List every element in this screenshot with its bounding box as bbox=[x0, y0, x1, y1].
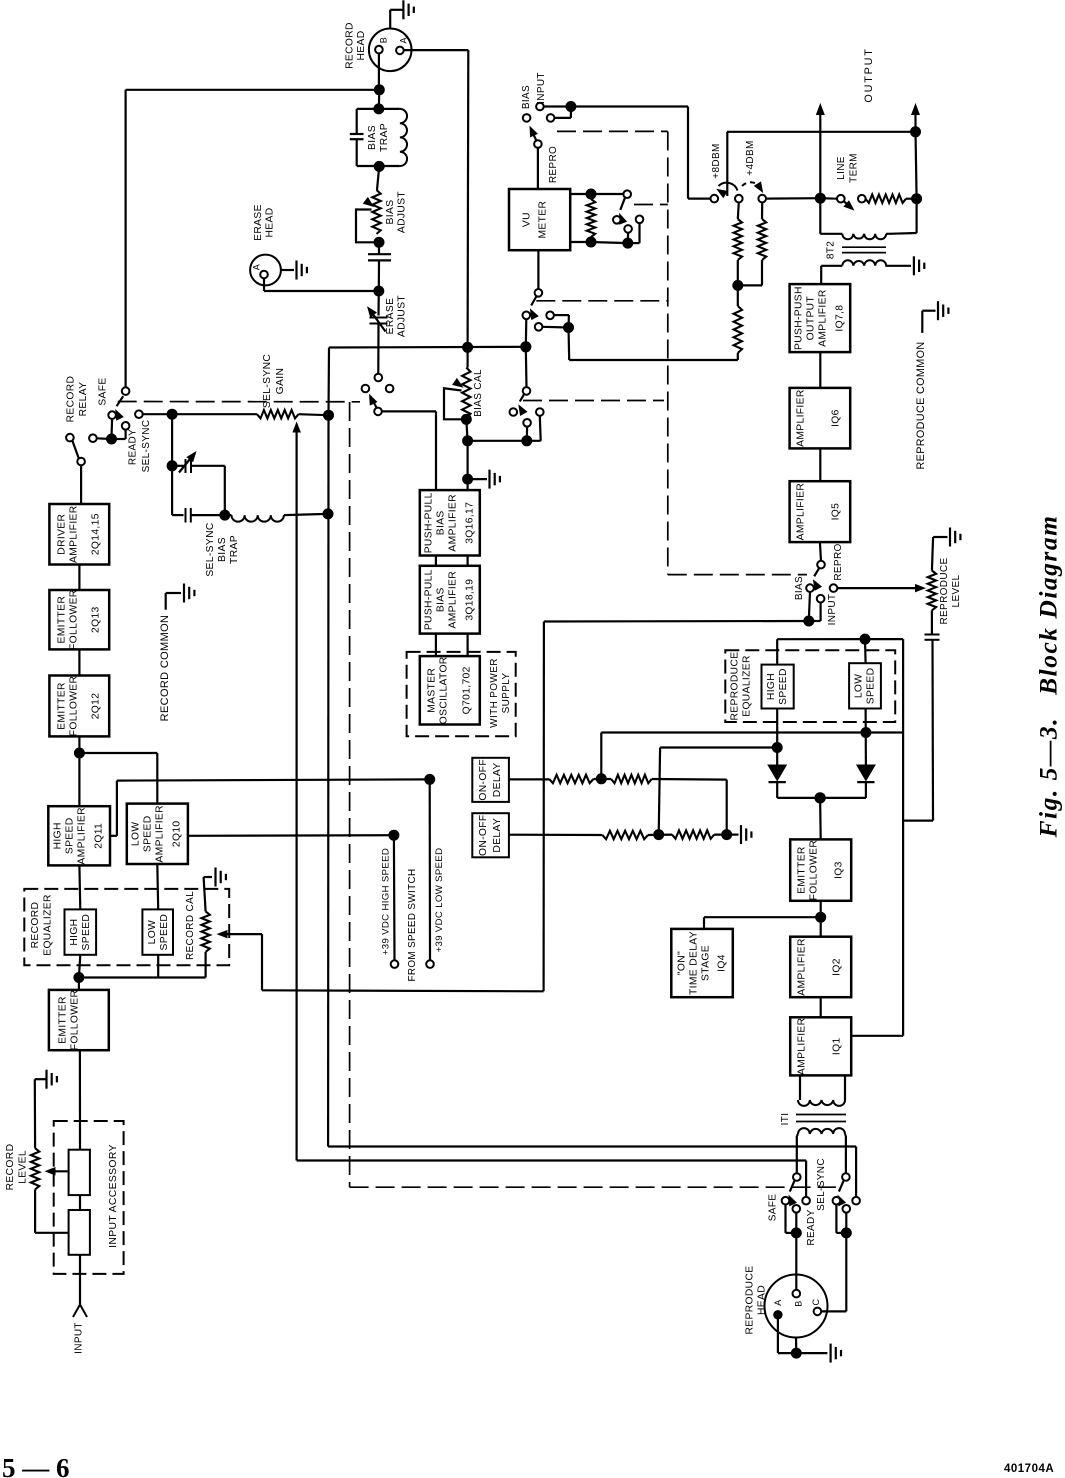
svg-text:OSCILLATOR: OSCILLATOR bbox=[439, 656, 450, 724]
node J6 bbox=[324, 410, 334, 420]
transformer IT1 bbox=[780, 1075, 846, 1173]
svg-text:A: A bbox=[399, 37, 409, 43]
svg-text:REPRO: REPRO bbox=[833, 543, 844, 580]
ground (record level) bbox=[35, 1070, 57, 1149]
dashed gang line (record relay) bbox=[118, 401, 360, 403]
node J16 bbox=[912, 194, 922, 204]
wire +4dbm contact to line bbox=[766, 197, 821, 200]
svg-text:FOLLOWER: FOLLOWER bbox=[69, 676, 80, 737]
switch (meter source) bbox=[523, 250, 574, 347]
svg-text:LEVEL: LEVEL bbox=[951, 574, 962, 607]
svg-text:"ON": "ON" bbox=[677, 951, 688, 975]
bias trap LC bbox=[350, 109, 407, 166]
node J14 bbox=[733, 280, 743, 290]
svg-text:RECORD COMMON: RECORD COMMON bbox=[159, 615, 171, 722]
svg-text:HIGH: HIGH bbox=[766, 673, 777, 700]
block AMPLIFIER IQ1 bbox=[790, 1017, 851, 1075]
wire head A to ground bbox=[778, 1315, 828, 1353]
svg-text:SPEED: SPEED bbox=[143, 815, 154, 852]
svg-text:INPUT: INPUT bbox=[74, 1322, 85, 1354]
svg-text:HEAD: HEAD bbox=[356, 30, 367, 60]
svg-text:A: A bbox=[252, 264, 262, 270]
svg-text:STAGE: STAGE bbox=[701, 945, 712, 981]
svg-text:DELAY: DELAY bbox=[492, 762, 503, 797]
wire EF to accessory bbox=[79, 1050, 81, 1150]
node (hs junction) bbox=[772, 743, 782, 753]
wire J16 up bbox=[916, 132, 917, 199]
svg-text:IQ5: IQ5 bbox=[831, 503, 842, 521]
svg-text:AMPLIFIER: AMPLIFIER bbox=[155, 805, 166, 863]
svg-text:EMITTER: EMITTER bbox=[57, 596, 68, 644]
svg-text:5 — 6: 5 — 6 bbox=[2, 1453, 70, 1478]
switch (reproduce input BIAS/REPRO/INPUT) bbox=[794, 543, 844, 625]
ground (erase head) bbox=[281, 261, 307, 280]
wire repro to level pot bbox=[837, 584, 926, 593]
svg-text:TRAP: TRAP bbox=[229, 535, 240, 564]
wire hs to chain2 bbox=[659, 748, 778, 835]
svg-text:401704A: 401704A bbox=[1004, 1463, 1054, 1475]
block DRIVER AMPLIFIER 2Q14,15 bbox=[49, 504, 109, 565]
wire to bias adjust bbox=[377, 166, 379, 190]
svg-text:BIAS: BIAS bbox=[521, 85, 532, 109]
resistor (mix 1b) bbox=[611, 775, 652, 783]
wire 2Q12 down bbox=[78, 736, 80, 806]
svg-text:SPEED: SPEED bbox=[65, 817, 76, 854]
wire to IQ3 bbox=[819, 798, 822, 840]
node J11 bbox=[522, 436, 532, 446]
block EMITTER FOLLOWER (input) bbox=[49, 990, 109, 1051]
wire sel-sync gain out bbox=[299, 414, 329, 415]
ground REPRODUCE COMMON bbox=[915, 301, 948, 469]
wire split to 2Q10 bbox=[79, 753, 157, 804]
svg-text:HIGH: HIGH bbox=[69, 919, 80, 946]
wire 2Q10 out bbox=[188, 834, 394, 837]
svg-text:IQ2: IQ2 bbox=[832, 958, 843, 976]
block ON-OFF DELAY (low speed) bbox=[472, 758, 509, 802]
svg-text:SAFE: SAFE bbox=[98, 377, 109, 405]
wire selsync to head C bbox=[821, 1233, 846, 1312]
svg-text:B: B bbox=[379, 37, 389, 43]
block PUSH-PULL BIAS AMPLIFIER 3Q18,19 bbox=[420, 566, 480, 634]
block EMITTER FOLLOWER 2Q13 bbox=[49, 589, 109, 650]
svg-text:LINE: LINE bbox=[836, 156, 847, 180]
node J12 bbox=[463, 474, 473, 484]
svg-text:HEAD: HEAD bbox=[757, 1285, 768, 1315]
svg-text:HEAD: HEAD bbox=[265, 207, 276, 237]
terminal INPUT bbox=[73, 1305, 87, 1354]
capacitor (sel-sync trap) bbox=[172, 466, 225, 523]
svg-text:EMITTER: EMITTER bbox=[57, 682, 68, 730]
svg-text:SPEED: SPEED bbox=[159, 914, 170, 951]
svg-text:SEL-SYNC: SEL-SYNC bbox=[205, 522, 216, 577]
dashed gang vertical (relay to repro switches) bbox=[349, 402, 351, 1187]
node (trap mid) bbox=[220, 510, 230, 520]
svg-text:DRIVER: DRIVER bbox=[57, 514, 68, 555]
svg-text:2Q14,15: 2Q14,15 bbox=[91, 513, 102, 555]
connector J erase head bbox=[250, 204, 281, 285]
svg-text:ON-OFF: ON-OFF bbox=[478, 814, 489, 856]
wire VU right top bbox=[570, 193, 591, 195]
wire 2Q11 to equalizer bbox=[78, 865, 81, 909]
dashed box (power supply) bbox=[407, 652, 516, 736]
ground (bias) bbox=[470, 470, 500, 489]
connector J reproduce head bbox=[745, 1266, 828, 1338]
wire chain2 bbox=[509, 834, 602, 836]
switch (record/sel-sync bias) bbox=[362, 374, 394, 416]
svg-text:IQ6: IQ6 bbox=[831, 409, 842, 427]
node (low speed top) bbox=[860, 634, 870, 644]
svg-text:EQUALIZER: EQUALIZER bbox=[742, 655, 753, 717]
node J9 bbox=[461, 414, 471, 424]
svg-text:RECORD: RECORD bbox=[5, 1144, 16, 1191]
arrow OUTPUT 1 bbox=[816, 103, 825, 198]
svg-text:SAFE: SAFE bbox=[768, 1194, 779, 1222]
svg-text:BIAS CAL: BIAS CAL bbox=[473, 369, 484, 417]
wire ready feed bbox=[297, 1161, 806, 1198]
potentiometer RECORD LEVEL bbox=[5, 1144, 69, 1233]
svg-text:BIAS: BIAS bbox=[794, 576, 805, 600]
svg-text:EQUALIZER: EQUALIZER bbox=[43, 894, 54, 956]
switch (output level +8/+4 DBM) bbox=[711, 132, 767, 203]
svg-text:READY: READY bbox=[806, 1209, 817, 1245]
svg-text:B: B bbox=[794, 1300, 804, 1306]
wire equalizer top bus bbox=[777, 639, 903, 665]
dashed gang line (meter source) bbox=[536, 300, 668, 302]
wire J10 down bbox=[467, 441, 469, 490]
potentiometer BIAS ADJUST bbox=[356, 190, 408, 242]
svg-text:MASTER: MASTER bbox=[427, 668, 438, 713]
node (head ground) bbox=[791, 1348, 801, 1358]
svg-text:DELAY: DELAY bbox=[492, 818, 503, 853]
node (eq bus) bbox=[74, 973, 84, 983]
svg-text:2Q12: 2Q12 bbox=[91, 693, 102, 720]
resistor (mix 2b) bbox=[672, 830, 714, 838]
svg-text:AMPLIFIER: AMPLIFIER bbox=[69, 505, 80, 563]
potentiometer SEL-SYNC GAIN bbox=[257, 354, 301, 1161]
switch (reproduce SEL-SYNC) bbox=[816, 1158, 860, 1238]
block LOW SPEED AMPLIFIER 2Q10 bbox=[127, 804, 188, 864]
ground (reproduce level) bbox=[950, 528, 960, 547]
wire J4 to capacitor bbox=[378, 242, 380, 254]
wire bias feed line bbox=[329, 346, 526, 349]
wire J3 down bbox=[467, 347, 469, 367]
svg-text:AMPLIFIER: AMPLIFIER bbox=[77, 807, 88, 865]
svg-text:LOW: LOW bbox=[854, 674, 865, 699]
svg-text:REPRODUCE: REPRODUCE bbox=[745, 1266, 756, 1335]
svg-text:2Q11: 2Q11 bbox=[94, 823, 105, 849]
node J15 bbox=[815, 193, 825, 203]
svg-text:SPEED: SPEED bbox=[866, 668, 877, 705]
ground (reproduce head) bbox=[831, 1344, 841, 1363]
block HIGH SPEED AMPLIFIER 2Q11 bbox=[48, 806, 110, 865]
wire meter pole to VU bbox=[537, 148, 539, 189]
node J8 bbox=[521, 342, 531, 352]
svg-text:AMPLIFIER: AMPLIFIER bbox=[796, 389, 807, 447]
wire IQ3 to IQ2 bbox=[820, 901, 822, 937]
relay contacts RECORD RELAY bbox=[66, 376, 130, 504]
block MASTER OSCILLATOR Q701,702 bbox=[420, 656, 480, 724]
svg-text:SEL-SYNC: SEL-SYNC bbox=[816, 1158, 827, 1211]
svg-text:AMPLIFIER: AMPLIFIER bbox=[448, 571, 459, 629]
svg-text:TRAP: TRAP bbox=[379, 123, 390, 152]
svg-text:TERM: TERM bbox=[849, 153, 860, 183]
wire sel-sync line bbox=[143, 413, 258, 415]
dashed box REPRODUCE EQUALIZER bbox=[725, 650, 895, 722]
svg-text:REPRODUCE: REPRODUCE bbox=[939, 557, 950, 624]
switch (meter range) bbox=[591, 190, 643, 248]
dashed gang line (meter top) bbox=[557, 130, 668, 132]
wire J9 down bbox=[466, 419, 467, 441]
node bbox=[586, 237, 596, 247]
svg-text:8T2: 8T2 bbox=[826, 241, 837, 259]
terminal +39 VDC HIGH SPEED bbox=[380, 835, 398, 968]
node bbox=[586, 189, 596, 199]
wire IQ1 feedback bbox=[851, 1035, 903, 1037]
svg-text:REPRODUCE COMMON: REPRODUCE COMMON bbox=[915, 342, 927, 470]
resistor (+8dbm) bbox=[734, 202, 742, 285]
dashed gang line (bias cal to repro) bbox=[523, 400, 664, 402]
terminal SEL-SYNC bbox=[128, 410, 153, 472]
wire record eq bus bbox=[79, 952, 206, 978]
svg-text:PUSH-PULL: PUSH-PULL bbox=[424, 569, 435, 630]
potentiometer RECORD CAL bbox=[185, 877, 262, 960]
svg-text:METER: METER bbox=[538, 201, 549, 239]
svg-text:PUSH-PUSH: PUSH-PUSH bbox=[794, 286, 805, 350]
node J2 bbox=[374, 104, 384, 114]
svg-text:+39 VDC LOW SPEED: +39 VDC LOW SPEED bbox=[434, 848, 445, 953]
svg-text:VU: VU bbox=[522, 212, 533, 227]
wire J8 to bias-cal switch bbox=[525, 347, 528, 388]
svg-text:IQ3: IQ3 bbox=[834, 861, 845, 879]
block LOW SPEED (repro eq) bbox=[849, 663, 881, 708]
node chain1 tap bbox=[596, 774, 606, 784]
wire IQ5 to switch bbox=[820, 542, 821, 561]
node J5 bbox=[374, 286, 384, 296]
svg-text:FOLLOWER: FOLLOWER bbox=[809, 840, 820, 901]
dashed gang vertical (meter/repro) bbox=[667, 132, 669, 575]
svg-text:REPRO: REPRO bbox=[548, 146, 559, 183]
svg-text:Q701,702: Q701,702 bbox=[462, 666, 473, 714]
svg-text:ADJUST: ADJUST bbox=[397, 295, 408, 338]
block LOW SPEED (record eq) bbox=[142, 909, 173, 954]
svg-text:SEL-SYNC: SEL-SYNC bbox=[141, 420, 152, 473]
svg-text:EMITTER: EMITTER bbox=[58, 996, 69, 1044]
svg-text:3Q18,19: 3Q18,19 bbox=[465, 579, 476, 621]
svg-text:ERASE: ERASE bbox=[385, 298, 396, 335]
capacitor (reproduce level) bbox=[903, 610, 939, 820]
svg-text:EMITTER: EMITTER bbox=[797, 846, 808, 894]
svg-text:LOW: LOW bbox=[147, 920, 158, 945]
svg-text:BIAS: BIAS bbox=[217, 537, 228, 562]
trimmer capacitor (sel-sync trap) bbox=[167, 414, 225, 515]
svg-text:ERASE: ERASE bbox=[253, 204, 264, 241]
svg-text:ON-OFF: ON-OFF bbox=[478, 759, 489, 801]
svg-text:C: C bbox=[811, 1298, 821, 1305]
wire bbox=[593, 778, 611, 780]
svg-text:FOLLOWER: FOLLOWER bbox=[70, 990, 81, 1051]
svg-text:AMPLIFIER: AMPLIFIER bbox=[796, 483, 807, 541]
ground (record common) bbox=[159, 584, 194, 722]
node J7 bbox=[323, 509, 333, 519]
svg-text:LEVEL: LEVEL bbox=[18, 1150, 29, 1184]
svg-text:READY: READY bbox=[128, 429, 139, 465]
switch (reproduce SAFE/READY) bbox=[768, 1173, 818, 1245]
wire record cal feedback bbox=[262, 934, 544, 991]
dashed gang line (to repro input switch) bbox=[668, 574, 807, 576]
block (accessory 2) bbox=[69, 1210, 90, 1255]
block PUSH-PULL BIAS AMPLIFIER 3Q16,17 bbox=[420, 490, 480, 555]
wires 3Q18 to oscillator bbox=[436, 634, 468, 657]
svg-text:BIAS: BIAS bbox=[436, 510, 447, 535]
wires 3Q16 to 3Q18 bbox=[436, 556, 468, 566]
diode (high speed) bbox=[767, 765, 787, 798]
wire aux to mix line bbox=[569, 328, 738, 361]
wire ls to chain1 bbox=[601, 733, 866, 779]
switch (bias cal) bbox=[510, 387, 544, 441]
wire input line to output stage bbox=[544, 107, 711, 199]
block EMITTER FOLLOWER 2Q12 bbox=[49, 676, 109, 737]
wire to IQ4 bbox=[704, 917, 821, 929]
arrow OUTPUT 2 bbox=[863, 47, 920, 131]
ground (mix chain) bbox=[731, 825, 751, 844]
svg-text:LOW: LOW bbox=[131, 822, 142, 847]
svg-text:2Q10: 2Q10 bbox=[172, 821, 183, 848]
wire sel-sync long vertical bbox=[327, 415, 330, 1146]
svg-text:BIAS: BIAS bbox=[385, 200, 396, 225]
node J17 bbox=[804, 616, 814, 626]
svg-text:IQ4: IQ4 bbox=[717, 954, 728, 972]
wire erase head to J5 bbox=[264, 278, 379, 291]
svg-text:SPEED: SPEED bbox=[81, 914, 92, 951]
node (low speed supply) bbox=[425, 774, 435, 784]
svg-text:TIME DELAY: TIME DELAY bbox=[689, 931, 700, 995]
block ON-OFF DELAY (high speed) bbox=[472, 813, 509, 857]
svg-text:OUTPUT: OUTPUT bbox=[806, 296, 817, 341]
dashed box RECORD EQUALIZER bbox=[24, 889, 229, 965]
svg-text:3Q16,17: 3Q16,17 bbox=[465, 502, 476, 544]
svg-text:AMPLIFIER: AMPLIFIER bbox=[818, 289, 829, 347]
resistor (mix 2a) bbox=[602, 831, 648, 839]
svg-text:OUTPUT: OUTPUT bbox=[863, 47, 875, 102]
block HIGH SPEED (record eq) bbox=[65, 909, 97, 954]
block VU METER bbox=[509, 189, 570, 250]
node (record split) bbox=[74, 748, 84, 758]
svg-text:ITI: ITI bbox=[780, 1113, 791, 1126]
wire IQ2 to IQ1 bbox=[820, 997, 822, 1017]
svg-text:INPUT ACCESSORY: INPUT ACCESSORY bbox=[108, 1144, 119, 1248]
node (sel-sync trap tap) bbox=[167, 409, 177, 419]
node J4 bbox=[374, 237, 384, 247]
svg-text:GAIN: GAIN bbox=[275, 368, 286, 395]
potentiometer REPRODUCE LEVEL bbox=[928, 537, 962, 625]
wire record cal line bbox=[544, 621, 809, 991]
svg-text:IQ1: IQ1 bbox=[832, 1037, 843, 1055]
node chain2 right bbox=[722, 830, 732, 840]
wire sel-sync feed bbox=[328, 1147, 856, 1198]
svg-text:SPEED: SPEED bbox=[778, 668, 789, 705]
node J2b bbox=[374, 161, 384, 171]
block EMITTER FOLLOWER IQ3 bbox=[790, 839, 851, 900]
wire between accessories bbox=[79, 1195, 81, 1210]
wire low speed bottom bbox=[864, 709, 867, 766]
svg-text:AMPLIFIER: AMPLIFIER bbox=[448, 494, 459, 552]
svg-text:RELAY: RELAY bbox=[78, 382, 89, 417]
block AMPLIFIER IQ6 bbox=[790, 388, 851, 449]
node (IQ4 tap) bbox=[816, 912, 826, 922]
block AMPLIFIER IQ2 bbox=[790, 937, 851, 998]
svg-text:INPUT: INPUT bbox=[536, 72, 547, 104]
block PUSH-PUSH OUTPUT AMPLIFIER IQ7,8 bbox=[790, 284, 851, 352]
node (input line) bbox=[566, 102, 576, 112]
dashed gang line (meter range) bbox=[634, 204, 668, 206]
connector J record head bbox=[345, 22, 412, 71]
wire eq bus to EF bbox=[78, 978, 80, 990]
svg-text:ADJUST: ADJUST bbox=[397, 191, 408, 234]
node J3 bbox=[463, 342, 473, 352]
resistor (meter shunt) bbox=[587, 199, 595, 237]
svg-text:RECORD: RECORD bbox=[345, 22, 356, 69]
trimmer ERASE ADJUST bbox=[367, 291, 408, 374]
svg-text:SEL-SYNC: SEL-SYNC bbox=[262, 354, 273, 409]
wire 2Q13 to 2Q12 bbox=[78, 649, 80, 675]
inductor (sel-sync bias trap) bbox=[205, 514, 328, 577]
wire 2Q11 out bbox=[110, 779, 430, 835]
wire diode bus bbox=[777, 797, 866, 799]
ground (record cal) bbox=[216, 868, 226, 887]
svg-text:+8DBM: +8DBM bbox=[711, 143, 722, 178]
wire bias cal bus bbox=[468, 440, 541, 442]
wire SW2 pole to 3Q16 input bbox=[382, 411, 436, 490]
footer document number bbox=[1004, 1463, 1054, 1475]
svg-text:AMPLIFIER: AMPLIFIER bbox=[797, 938, 808, 996]
svg-text:INPUT: INPUT bbox=[827, 594, 838, 626]
node (high speed supply) bbox=[389, 830, 399, 840]
svg-text:FOLLOWER: FOLLOWER bbox=[69, 589, 80, 650]
svg-text:Fig. 5—3. Block Diagram: Fig. 5—3. Block Diagram bbox=[1034, 515, 1063, 839]
svg-text:IQ7,8: IQ7,8 bbox=[835, 305, 846, 332]
svg-text:FROM SPEED SWITCH: FROM SPEED SWITCH bbox=[407, 869, 418, 982]
node J1 bbox=[374, 85, 384, 95]
ground (record head) bbox=[390, 0, 414, 28]
ground (8T2) bbox=[914, 256, 924, 275]
block ON TIME DELAY STAGE IQ4 bbox=[671, 929, 733, 997]
wire left branch down bbox=[327, 348, 330, 416]
wire J1 to bias trap bbox=[378, 90, 381, 109]
resistor (mix 1a) bbox=[549, 775, 593, 783]
svg-text:RECORD CAL: RECORD CAL bbox=[185, 891, 196, 960]
svg-text:AMPLIFIER: AMPLIFIER bbox=[797, 1018, 808, 1076]
wire eq top bus down bbox=[902, 639, 904, 1036]
svg-text:HIGH: HIGH bbox=[53, 822, 64, 849]
wire record head B down bbox=[378, 53, 380, 90]
node J10 bbox=[463, 436, 473, 446]
svg-text:PUSH-PULL: PUSH-PULL bbox=[424, 492, 435, 553]
svg-text:A: A bbox=[773, 1299, 783, 1305]
svg-text:BIAS: BIAS bbox=[367, 125, 378, 150]
terminal +39 VDC LOW SPEED bbox=[426, 779, 445, 967]
wire chain1 right bbox=[652, 779, 727, 835]
dashed gang line (repro switches) bbox=[350, 1186, 836, 1188]
wire accessory to input bbox=[79, 1255, 81, 1304]
resistor (mix drop) bbox=[734, 285, 742, 360]
dashed box INPUT ACCESSORY bbox=[54, 1121, 124, 1274]
wire VU right bottom bbox=[570, 241, 591, 243]
block HIGH SPEED (repro eq) bbox=[762, 665, 794, 709]
node (diode junction) bbox=[815, 793, 825, 803]
footer page number bbox=[2, 1453, 70, 1478]
wire high speed bottom bbox=[776, 709, 778, 766]
potentiometer BIAS CAL bbox=[444, 368, 484, 420]
